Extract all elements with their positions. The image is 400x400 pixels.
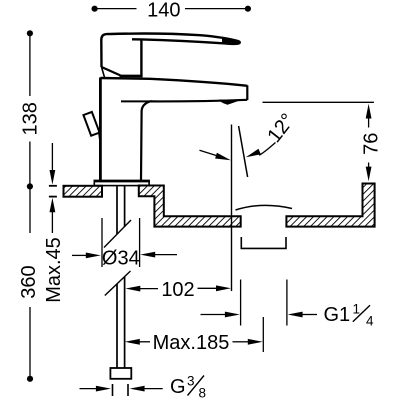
svg-text:76: 76 (361, 133, 383, 155)
dimension G1 1/4 text (324, 302, 375, 329)
dimension 102 right arrow (198, 287, 217, 289)
Max.45 tick bottom (49, 196, 57, 198)
dimension Max.185 right arrow (233, 341, 249, 343)
dimension Max.185 left arrow (140, 341, 151, 343)
faucet spout underside inner line (121, 100, 152, 102)
spout height reference line (263, 101, 374, 103)
faucet shank upper right line (124, 186, 126, 227)
dimension Ø34 right extension line (139, 218, 141, 267)
Max.45 dimension lower arrow (51, 210, 53, 233)
faucet side rod link line (99, 132, 101, 146)
faucet base plate (94, 181, 149, 186)
faucet spout top edge (100, 78, 247, 86)
dimension 138 line (29, 33, 31, 186)
svg-text:Max.45: Max.45 (43, 237, 65, 303)
faucet lever blade solid tip (222, 37, 239, 45)
countertop left slab hatched (64, 186, 103, 197)
svg-text:1: 1 (353, 302, 361, 317)
pipe break diagonal 1 (104, 220, 131, 248)
dimension G 3/8 tick right (127, 384, 129, 396)
countertop right step and basin floor hatched (139, 186, 241, 227)
svg-text:138: 138 (20, 102, 42, 135)
supply pipe right line (124, 277, 126, 368)
dimension 102 left arrow (140, 288, 158, 290)
faucet lever base block chamfer (102, 67, 121, 75)
Max.45 dimension upper arrow (51, 143, 53, 172)
dimension Ø34 left extension line (101, 218, 103, 267)
dimension G1 1/4 right arrow (302, 314, 317, 316)
dimension G 3/8 right arrow (143, 388, 163, 390)
drain tailpiece bracket (241, 237, 286, 248)
svg-text:360: 360 (18, 265, 40, 298)
dimension G 3/8 tick left (112, 384, 114, 396)
drain center extension line (262, 317, 264, 352)
svg-text:140: 140 (147, 0, 180, 22)
dimension 76 upper arrow (368, 116, 370, 128)
drain left extension line (240, 280, 242, 326)
svg-text:Ø34: Ø34 (102, 248, 140, 270)
svg-text:G1: G1 (324, 304, 351, 326)
dimension G1 1/4 left arrow (201, 314, 227, 316)
svg-text:8: 8 (199, 386, 207, 400)
svg-text:Max.185: Max.185 (153, 332, 230, 354)
dimension Ø34 right arrow (154, 254, 177, 256)
Max.45 tick top (49, 185, 57, 187)
svg-text:3: 3 (187, 374, 195, 389)
faucet lever base block bottom edge (120, 75, 143, 78)
faucet spout right edge (246, 85, 248, 100)
faucet spout underside (141, 100, 247, 181)
angle 12 left leader arrow (200, 150, 218, 156)
spout angle vertical reference line (231, 125, 233, 292)
dimension 140 line (95, 8, 248, 10)
basin waterline curve (236, 205, 293, 210)
svg-text:102: 102 (161, 279, 194, 301)
dimension G 3/8 text (170, 374, 206, 400)
dimension 360 end dot (27, 376, 33, 382)
dimension 360 line (29, 186, 31, 378)
faucet shank upper left line (116, 186, 118, 234)
svg-text:G: G (170, 376, 186, 398)
faucet lever base block front edge (140, 39, 142, 75)
dimension G 3/8 left arrow (80, 388, 98, 390)
faucet aerator wedge (219, 100, 241, 105)
faucet lever base block left edge (101, 34, 110, 67)
spout angle tilted line (239, 126, 248, 177)
supply pipe left line (116, 284, 118, 369)
supply hose nut (110, 368, 131, 379)
basin floor right and rim wall hatched (286, 184, 374, 227)
dimension Ø34 left arrow (72, 254, 86, 256)
drain right extension line (286, 280, 288, 326)
pipe break diagonal 2 (105, 271, 131, 296)
dimension 76 lower arrow (368, 163, 370, 170)
svg-text:4: 4 (366, 314, 374, 329)
faucet base plate top thick line (94, 180, 150, 183)
dimension 138 end dots (27, 30, 33, 36)
dimension 140 end dots (92, 6, 98, 12)
faucet body lower-left diagonal (102, 67, 105, 78)
faucet side rod (83, 112, 99, 136)
faucet lever blade (111, 34, 240, 44)
faucet body left edge (99, 78, 102, 181)
angle 12 right leader arrow (259, 143, 276, 156)
